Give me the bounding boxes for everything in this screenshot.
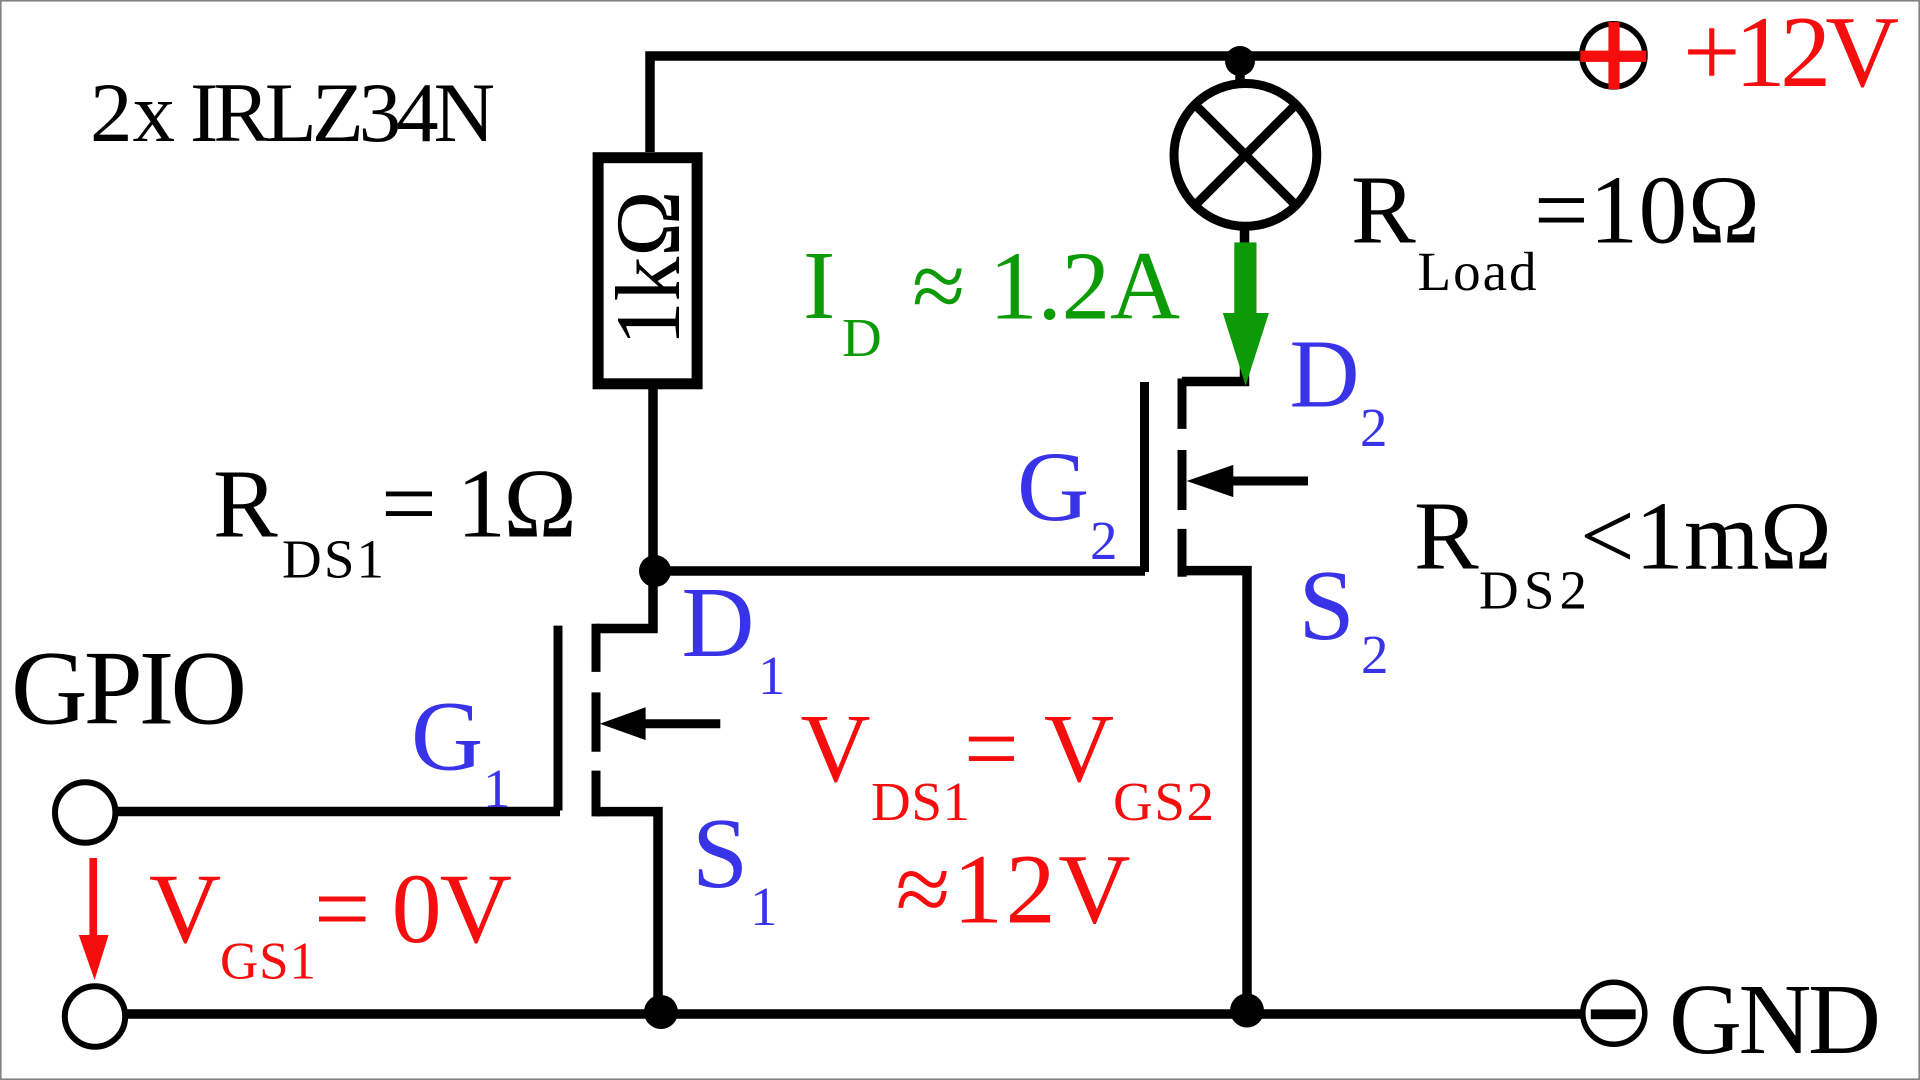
svg-text:1: 1 — [750, 876, 778, 937]
svg-text:D: D — [682, 566, 755, 678]
svg-text:GS2: GS2 — [1113, 771, 1214, 832]
svg-text:G: G — [1017, 431, 1089, 542]
svg-text:R: R — [213, 451, 278, 558]
svg-text:D: D — [842, 307, 882, 368]
node: junction dot at Q2 source / ground rail — [1230, 994, 1264, 1028]
voltage arrow VGS1 (red) — [79, 858, 109, 980]
wire: Q2 drain up to lamp — [1182, 228, 1245, 382]
svg-text:=: = — [964, 695, 1019, 802]
svg-text:2: 2 — [1360, 397, 1388, 458]
label: VDS1 = VGS2 (red) — [801, 695, 1215, 832]
svg-text:1: 1 — [758, 645, 786, 706]
svg-text:D: D — [1290, 320, 1360, 427]
wire: resistor bottom lead down to Q1 drain — [596, 389, 653, 629]
svg-text:R: R — [1351, 156, 1416, 263]
transistor Q1 channel (dashed) — [592, 624, 601, 817]
transistor Q1 gate bar — [554, 626, 563, 811]
pin label D2 (blue) — [1290, 320, 1388, 458]
node: junction dot at R1 / Q1 drain / Q2 gate — [639, 555, 671, 587]
svg-text:1: 1 — [483, 758, 511, 819]
svg-text:S: S — [1299, 549, 1355, 661]
svg-text:≈12V: ≈12V — [896, 834, 1131, 945]
node: junction dot at Q1 source / ground rail — [644, 995, 678, 1029]
terminal: GPIO lower pin — [65, 986, 125, 1046]
svg-text:=10Ω: =10Ω — [1534, 156, 1760, 263]
label: VGS1 = 0V (red) — [149, 853, 512, 991]
terminal: +12V supply — [1580, 22, 1646, 89]
svg-text:2x: 2x — [90, 66, 175, 160]
wire: Q1 source down to ground rail — [596, 812, 658, 1014]
svg-text:R: R — [1414, 482, 1479, 589]
svg-text:V: V — [801, 695, 871, 802]
transistor Q1 body arrow — [643, 719, 720, 728]
svg-text:GS1: GS1 — [220, 933, 316, 991]
pin label D1 (blue) — [682, 566, 786, 706]
wire: ground rail — [126, 1009, 1581, 1019]
svg-text:+12V: +12V — [1683, 0, 1899, 109]
resistor R1 body — [598, 158, 697, 384]
pin label G2 (blue) — [1017, 431, 1118, 571]
svg-text:I: I — [803, 232, 835, 339]
current arrow ID (green) — [1223, 242, 1269, 385]
svg-text:G: G — [411, 680, 483, 791]
wire: GPIO to Q1 gate — [113, 807, 560, 817]
terminal: GPIO upper pin — [55, 782, 115, 842]
node: junction dot at +12V rail / lamp — [1225, 46, 1255, 76]
svg-text:S: S — [692, 797, 748, 909]
svg-text:DS2: DS2 — [1479, 559, 1587, 620]
svg-text:IRLZ34N: IRLZ34N — [190, 66, 495, 160]
wire: node VDS1 to Q2 gate — [653, 566, 1145, 576]
wire: Q2 source down to ground rail — [1182, 571, 1247, 1014]
svg-text:DS1: DS1 — [871, 771, 970, 832]
transistor Q2 channel (dashed) — [1178, 379, 1187, 577]
svg-text:2: 2 — [1361, 624, 1389, 685]
transistor Q2 gate bar — [1140, 382, 1149, 572]
svg-text:≈ 1.2A: ≈ 1.2A — [912, 233, 1180, 340]
svg-text:= 0V: = 0V — [314, 853, 512, 964]
svg-text:1kΩ: 1kΩ — [597, 190, 700, 346]
svg-text:= 1Ω: = 1Ω — [381, 450, 577, 559]
svg-text:Load: Load — [1418, 241, 1537, 302]
transistor Q2 body arrow — [1231, 477, 1308, 486]
label: RDS2 < 1mΩ — [1414, 482, 1832, 620]
terminal: GND — [1583, 982, 1645, 1044]
svg-text:GPIO: GPIO — [11, 630, 247, 747]
pin label G1 (blue) — [411, 680, 511, 819]
label: RDS1 = 1Ω — [213, 450, 577, 590]
svg-text:V: V — [149, 853, 221, 964]
pin label S2 (blue) — [1299, 549, 1389, 685]
wire: +12V rail (resistor top lead up and across to +12V terminal) — [650, 56, 1581, 152]
lamp (load) symbol — [1174, 83, 1317, 226]
lamp top stem wire — [1235, 52, 1245, 82]
label: RLoad = 10Ω — [1351, 156, 1760, 302]
svg-text:2: 2 — [1090, 510, 1118, 571]
svg-text:V: V — [1044, 695, 1114, 802]
label: ID ≈ 1.2A (green) — [803, 232, 1180, 368]
svg-text:<1mΩ: <1mΩ — [1580, 482, 1832, 589]
svg-text:GND: GND — [1669, 963, 1881, 1075]
pin label S1 (blue) — [692, 797, 778, 937]
svg-text:DS1: DS1 — [282, 529, 384, 590]
